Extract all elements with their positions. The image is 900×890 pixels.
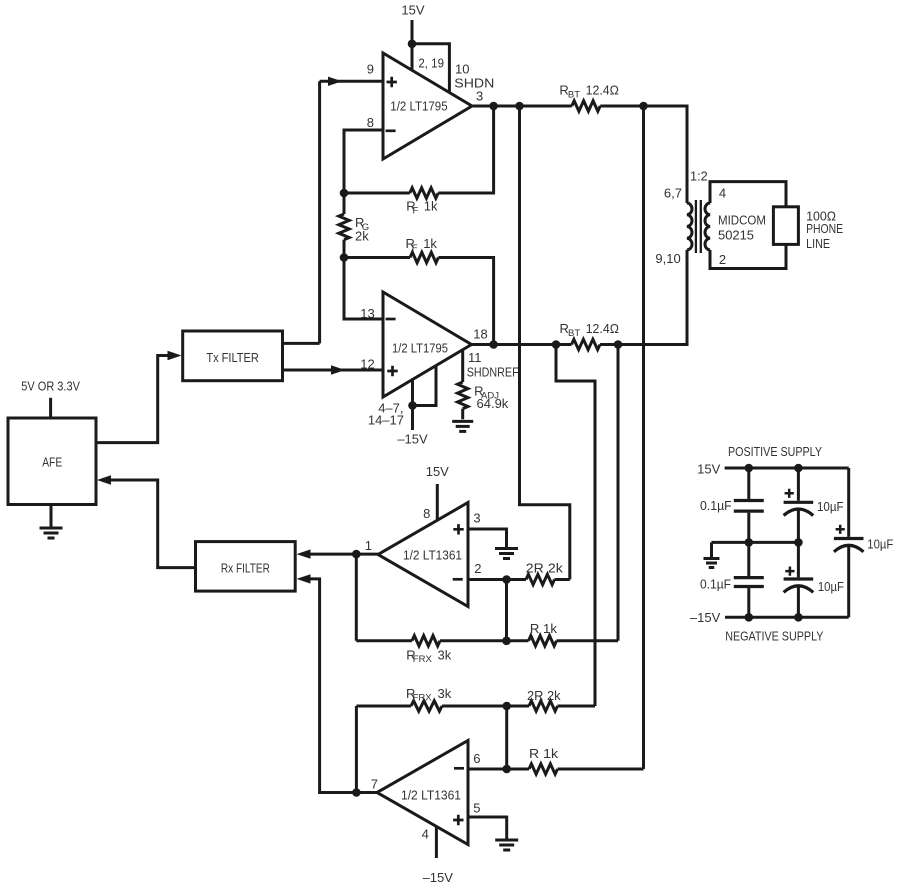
- resistor RADJ 64.9k: [458, 382, 468, 409]
- svg-text:6,7: 6,7: [664, 186, 682, 201]
- svg-text:SHDNREF: SHDNREF: [467, 365, 519, 380]
- wire U1b supply pins 4-7,14-17: [413, 366, 437, 430]
- svg-text:50215: 50215: [718, 228, 754, 243]
- wire RG leads: [343, 193, 346, 258]
- label pin 2: [719, 252, 726, 267]
- wire 2R upper leads: [507, 578, 570, 581]
- label POSITIVE SUPPLY: [728, 444, 822, 459]
- U1b + input sign: [387, 366, 397, 376]
- resistor 2R 2k (lower): [529, 701, 558, 711]
- node RBT1 right dot: [639, 102, 648, 111]
- resistor RBT 12.4 (lower): [572, 339, 601, 349]
- wire negative rail: [725, 616, 849, 619]
- pin label 10: [455, 62, 469, 77]
- svg-text:F: F: [413, 205, 419, 216]
- wire RFRX lower leads: [356, 705, 506, 708]
- wire right column leads: [847, 468, 850, 617]
- wire 2R upper tap vertical: [520, 106, 570, 580]
- svg-text:2, 19: 2, 19: [418, 56, 444, 71]
- svg-text:1k: 1k: [424, 198, 438, 213]
- plus sign (top middle cap): [785, 489, 794, 498]
- node U1b output dot: [489, 340, 498, 349]
- label U2b 1/2 LT1361: [401, 788, 461, 803]
- label 100 ohm PHONE LINE: [806, 208, 843, 251]
- label 1:2: [690, 168, 708, 183]
- label RADJ 64.9k: [474, 383, 509, 411]
- wire AFE output to Tx FILTER: [96, 356, 169, 443]
- pin label 18: [473, 327, 487, 342]
- block AFE: [8, 418, 96, 505]
- ground below AFE: [40, 528, 63, 538]
- svg-text:–15V: –15V: [423, 870, 454, 885]
- wire 5V stub to AFE: [49, 398, 52, 418]
- svg-text:8: 8: [367, 115, 374, 130]
- wire U2b + input (pin 5) to ground: [468, 817, 507, 840]
- wire U2b - input (pin 6): [468, 768, 507, 771]
- label 10uF (right): [867, 537, 893, 552]
- svg-text:12.4Ω: 12.4Ω: [586, 82, 620, 97]
- pin label 2 (U2a): [474, 561, 481, 576]
- label -15V (supply rail): [690, 610, 721, 625]
- node U1b supply dot: [408, 401, 417, 410]
- arrow into Rx FILTER top: [297, 549, 311, 558]
- resistor RF 1k (upper): [410, 188, 438, 198]
- svg-text:FRX: FRX: [413, 693, 433, 704]
- plus sign (right cap): [836, 525, 845, 534]
- pin label 6 (U2b): [473, 751, 480, 766]
- label RF 1k (upper): [406, 198, 438, 216]
- svg-text:18: 18: [473, 327, 487, 342]
- pin label 12: [360, 357, 374, 372]
- wire positive rail: [725, 467, 849, 470]
- block Rx FILTER: [196, 542, 296, 592]
- svg-text:10µF: 10µF: [817, 499, 844, 514]
- svg-text:64.9k: 64.9k: [477, 396, 509, 411]
- wire pin2 to RFRX node: [505, 580, 508, 641]
- wire U1b output to transformer: [472, 250, 688, 345]
- svg-text:–15V: –15V: [690, 610, 721, 625]
- label AFE: [42, 454, 62, 469]
- capacitor 10uF (bottom middle): [784, 579, 814, 592]
- svg-text:1: 1: [365, 538, 372, 553]
- wire U2b feedback vertical: [355, 706, 358, 793]
- pin label 3 (U2a): [473, 511, 480, 526]
- wire U2a output to Rx FILTER: [311, 553, 379, 556]
- svg-text:BT: BT: [568, 328, 580, 339]
- label 10uF (bottom middle): [818, 579, 844, 594]
- node jog tap dot: [552, 340, 561, 349]
- svg-text:R 1k: R 1k: [530, 621, 558, 636]
- wire 15V stub to node: [411, 20, 414, 44]
- svg-text:12.4Ω: 12.4Ω: [586, 321, 620, 336]
- op-amp U1b 1/2 LT1795 body: [383, 292, 472, 397]
- ground at U2b pin 5: [495, 840, 518, 850]
- svg-text:4: 4: [719, 186, 726, 201]
- capacitor 0.1uF (bottom): [734, 578, 764, 587]
- wire RF2 leads: [344, 258, 494, 345]
- wire U1a output to transformer: [472, 106, 687, 203]
- svg-text:POSITIVE SUPPLY: POSITIVE SUPPLY: [728, 444, 822, 459]
- wire Tx top signal vertical: [318, 81, 321, 343]
- pin label 8: [367, 115, 374, 130]
- svg-text:1/2 LT1795: 1/2 LT1795: [390, 98, 447, 113]
- transformer T1 primary winding: [687, 203, 692, 250]
- svg-text:5V OR 3.3V: 5V OR 3.3V: [21, 379, 80, 394]
- svg-text:4: 4: [422, 827, 429, 842]
- node pin 2 dot: [502, 575, 511, 584]
- ground below RADJ: [452, 421, 473, 431]
- plus sign (bottom middle cap): [785, 567, 794, 576]
- svg-text:11: 11: [468, 350, 482, 365]
- pin label 7 (U2b): [371, 777, 378, 792]
- wire AFE ground stub: [50, 505, 53, 529]
- svg-text:9: 9: [367, 62, 374, 77]
- svg-text:3k: 3k: [438, 686, 452, 701]
- label U2a 1/2 LT1361: [403, 548, 462, 563]
- pin label SHDNREF: [467, 365, 519, 380]
- wire R 1k upper leads: [507, 639, 619, 642]
- svg-text:2: 2: [474, 561, 481, 576]
- svg-text:6: 6: [473, 751, 480, 766]
- block Tx FILTER: [183, 331, 283, 381]
- wire pin6 node vertical: [505, 706, 508, 769]
- U2a + input sign: [453, 524, 463, 534]
- capacitor 0.1uF (top): [734, 501, 764, 512]
- label RBT 12.4 (upper): [559, 82, 619, 100]
- node feedback A dot: [340, 189, 349, 198]
- pin label 13: [360, 306, 374, 321]
- svg-text:1:2: 1:2: [690, 168, 708, 183]
- label 15V (supply rail): [697, 462, 720, 477]
- load resistor 100 ohm phone line box: [773, 207, 798, 245]
- resistor 2R 2k (upper): [526, 574, 555, 584]
- svg-text:AFE: AFE: [42, 454, 62, 469]
- wire U2a feedback vertical: [355, 554, 358, 641]
- wire Rx FILTER lower feed: [311, 579, 378, 793]
- wire U2a supply stub: [436, 484, 439, 521]
- wire U1b - input (pin 13): [344, 258, 383, 320]
- svg-text:PHONE: PHONE: [806, 221, 843, 236]
- svg-text:2k: 2k: [355, 229, 369, 244]
- label MIDCOM 50215: [718, 213, 766, 243]
- arrow into U1a + input: [328, 77, 342, 86]
- node mid dot 2: [794, 538, 803, 547]
- wire U2a - input (pin 2): [468, 578, 507, 581]
- svg-text:2: 2: [719, 252, 726, 267]
- U1a + input sign: [387, 77, 397, 87]
- svg-text:1/2 LT1361: 1/2 LT1361: [401, 788, 461, 803]
- node RBT2 right dot: [614, 340, 623, 349]
- svg-text:0.1µF: 0.1µF: [700, 577, 731, 592]
- pin label 4 (U2b): [422, 827, 429, 842]
- op-amp U2a 1/2 LT1361 body: [378, 503, 468, 607]
- label NEGATIVE SUPPLY: [725, 629, 824, 644]
- label Tx FILTER: [206, 350, 259, 365]
- node 2R tap dot: [515, 102, 524, 111]
- pin label 8 (U2a): [423, 506, 430, 521]
- svg-text:0.1µF: 0.1µF: [700, 498, 732, 513]
- label 6,7: [664, 186, 682, 201]
- U1a - input sign: [386, 129, 396, 132]
- svg-text:7: 7: [371, 777, 378, 792]
- wire RBT2 right sense vertical: [617, 345, 620, 641]
- ground (supply): [704, 559, 720, 568]
- label 10uF (top middle): [817, 499, 844, 514]
- svg-text:3: 3: [473, 511, 480, 526]
- resistor RFRX 3k (upper): [412, 636, 440, 646]
- label U1a 1/2 LT1795: [390, 98, 447, 113]
- wire U1b + input (pin 12): [283, 369, 384, 372]
- label RG 2k: [355, 215, 369, 244]
- wire left column leads: [747, 468, 750, 617]
- wire Tx FILTER top output: [283, 342, 320, 345]
- label pin 4: [719, 186, 726, 201]
- svg-text:15V: 15V: [426, 464, 449, 479]
- svg-text:3k: 3k: [438, 648, 452, 663]
- svg-text:5: 5: [473, 801, 480, 816]
- svg-text:15V: 15V: [697, 462, 720, 477]
- arrow into Rx FILTER bottom: [297, 574, 311, 583]
- label 2R 2k (lower): [527, 688, 561, 703]
- svg-text:1/2 LT1361: 1/2 LT1361: [403, 548, 462, 563]
- supply label 15V (U1a): [401, 3, 424, 18]
- wire R 1k lower leads: [507, 768, 644, 771]
- pin label 3: [476, 88, 483, 103]
- node neg rail dot 1: [745, 613, 754, 622]
- U2a - input sign: [453, 578, 463, 581]
- node RFRX/R junction dot: [502, 637, 511, 646]
- wire U1a + input (pin 9): [320, 80, 383, 83]
- wire Rx FILTER to AFE: [111, 480, 196, 568]
- transformer T1 secondary winding: [705, 203, 710, 250]
- wire pins 2,19 supply stub: [411, 44, 414, 71]
- node feedback B dot: [340, 253, 349, 262]
- wire RBT1 right sense vertical: [642, 106, 645, 769]
- label Rx FILTER: [221, 561, 270, 576]
- label R 1k (upper): [530, 621, 558, 636]
- label pins 4-7, 14-17: [368, 401, 404, 428]
- wire 2R lower leads: [507, 705, 595, 708]
- resistor RF 1k (lower): [410, 252, 438, 262]
- node pin 6 dot: [502, 765, 511, 774]
- svg-text:14–17: 14–17: [368, 413, 404, 428]
- wire U1a - input (pin 8) to feedback node: [344, 130, 383, 193]
- pin label 1 (U2a): [365, 538, 372, 553]
- arrow into Tx FILTER: [168, 351, 182, 360]
- wire jog to Rx lower 2R: [556, 345, 595, 707]
- op-amp U1a 1/2 LT1795 body: [383, 53, 472, 159]
- node U1a output dot: [489, 102, 498, 111]
- supply label -15V (U1b): [397, 431, 428, 446]
- wire mid column leads: [797, 468, 800, 617]
- wire secondary loop: [710, 182, 786, 269]
- svg-text:BT: BT: [568, 89, 580, 100]
- label RBT 12.4 (lower): [560, 321, 620, 339]
- resistor RBT 12.4 (upper): [572, 101, 600, 111]
- wire U2a + input (pin 3) to ground: [468, 529, 507, 549]
- resistor RG 2k: [339, 214, 349, 240]
- svg-text:9,10: 9,10: [655, 251, 680, 266]
- label RF 1k (lower): [406, 236, 438, 254]
- svg-text:15V: 15V: [401, 3, 424, 18]
- svg-text:2R 2k: 2R 2k: [527, 688, 561, 703]
- node rail dot 1: [745, 464, 754, 473]
- pin label 5 (U2b): [473, 801, 480, 816]
- capacitor 10uF (right): [834, 539, 864, 552]
- arrow into U1b + input: [331, 365, 345, 374]
- op-amp U2b 1/2 LT1361 body: [377, 741, 468, 845]
- supply label -15V (U2b): [423, 870, 454, 885]
- supply label 15V (U2a): [426, 464, 449, 479]
- wire pin 10 SHDN hookup: [412, 44, 449, 93]
- wire U2b supply stub: [435, 827, 438, 858]
- node rail dot 2: [794, 464, 803, 473]
- node U2b output dot: [352, 788, 361, 797]
- label 0.1uF (top): [700, 498, 732, 513]
- label 0.1uF (bottom): [700, 577, 731, 592]
- wire mid ground rail: [712, 541, 799, 544]
- pin label 11: [468, 350, 482, 365]
- svg-text:2R 2k: 2R 2k: [526, 561, 564, 576]
- svg-text:10µF: 10µF: [818, 579, 844, 594]
- U2b + input sign: [453, 815, 463, 825]
- svg-text:SHDN: SHDN: [454, 76, 494, 91]
- label 9,10: [655, 251, 680, 266]
- pin label SHDN: [454, 76, 494, 91]
- pin label 2, 19: [418, 56, 444, 71]
- resistor R 1k (upper): [529, 636, 557, 646]
- label 2R 2k (upper): [526, 561, 564, 576]
- label 5V OR 3.3V: [21, 379, 80, 394]
- svg-text:MIDCOM: MIDCOM: [718, 213, 766, 228]
- pin label 9: [367, 62, 374, 77]
- wire RFRX upper leads: [356, 639, 506, 642]
- transformer T1 core bars: [696, 200, 701, 253]
- svg-text:3: 3: [476, 88, 483, 103]
- svg-text:R 1k: R 1k: [529, 746, 559, 761]
- label U1b 1/2 LT1795: [392, 341, 448, 356]
- node U2a output dot: [352, 550, 361, 559]
- arrow into AFE: [97, 475, 111, 484]
- label R 1k (lower): [529, 746, 559, 761]
- resistor R 1k (lower): [529, 764, 558, 774]
- label RFRX 3k (lower): [406, 686, 452, 704]
- svg-text:8: 8: [423, 506, 430, 521]
- svg-text:LINE: LINE: [806, 236, 830, 251]
- svg-text:10µF: 10µF: [867, 537, 893, 552]
- U2b - input sign: [454, 767, 464, 770]
- svg-text:NEGATIVE SUPPLY: NEGATIVE SUPPLY: [725, 629, 824, 644]
- node neg rail dot 2: [794, 613, 803, 622]
- node RFRX2/2R dot: [502, 702, 511, 711]
- U1b - input sign: [386, 318, 396, 321]
- node 15V/pins junction dot: [408, 40, 417, 49]
- capacitor 10uF (top middle): [784, 502, 814, 515]
- label RFRX 3k (upper): [406, 648, 452, 666]
- wire ground stub (supply): [710, 542, 713, 558]
- resistor RFRX 3k (lower): [411, 701, 442, 711]
- wire RF1 feedback leads: [344, 106, 494, 193]
- svg-text:10: 10: [455, 62, 469, 77]
- svg-text:Rx FILTER: Rx FILTER: [221, 561, 270, 576]
- node mid dot 1: [745, 538, 754, 547]
- svg-text:Tx FILTER: Tx FILTER: [206, 350, 259, 365]
- svg-text:F: F: [412, 243, 418, 254]
- svg-text:–15V: –15V: [397, 431, 428, 446]
- svg-text:FRX: FRX: [413, 654, 433, 665]
- wire RADJ leads: [461, 351, 464, 420]
- svg-text:1/2 LT1795: 1/2 LT1795: [392, 341, 448, 356]
- ground at U2a pin 3: [495, 549, 518, 559]
- svg-text:1k: 1k: [423, 236, 437, 251]
